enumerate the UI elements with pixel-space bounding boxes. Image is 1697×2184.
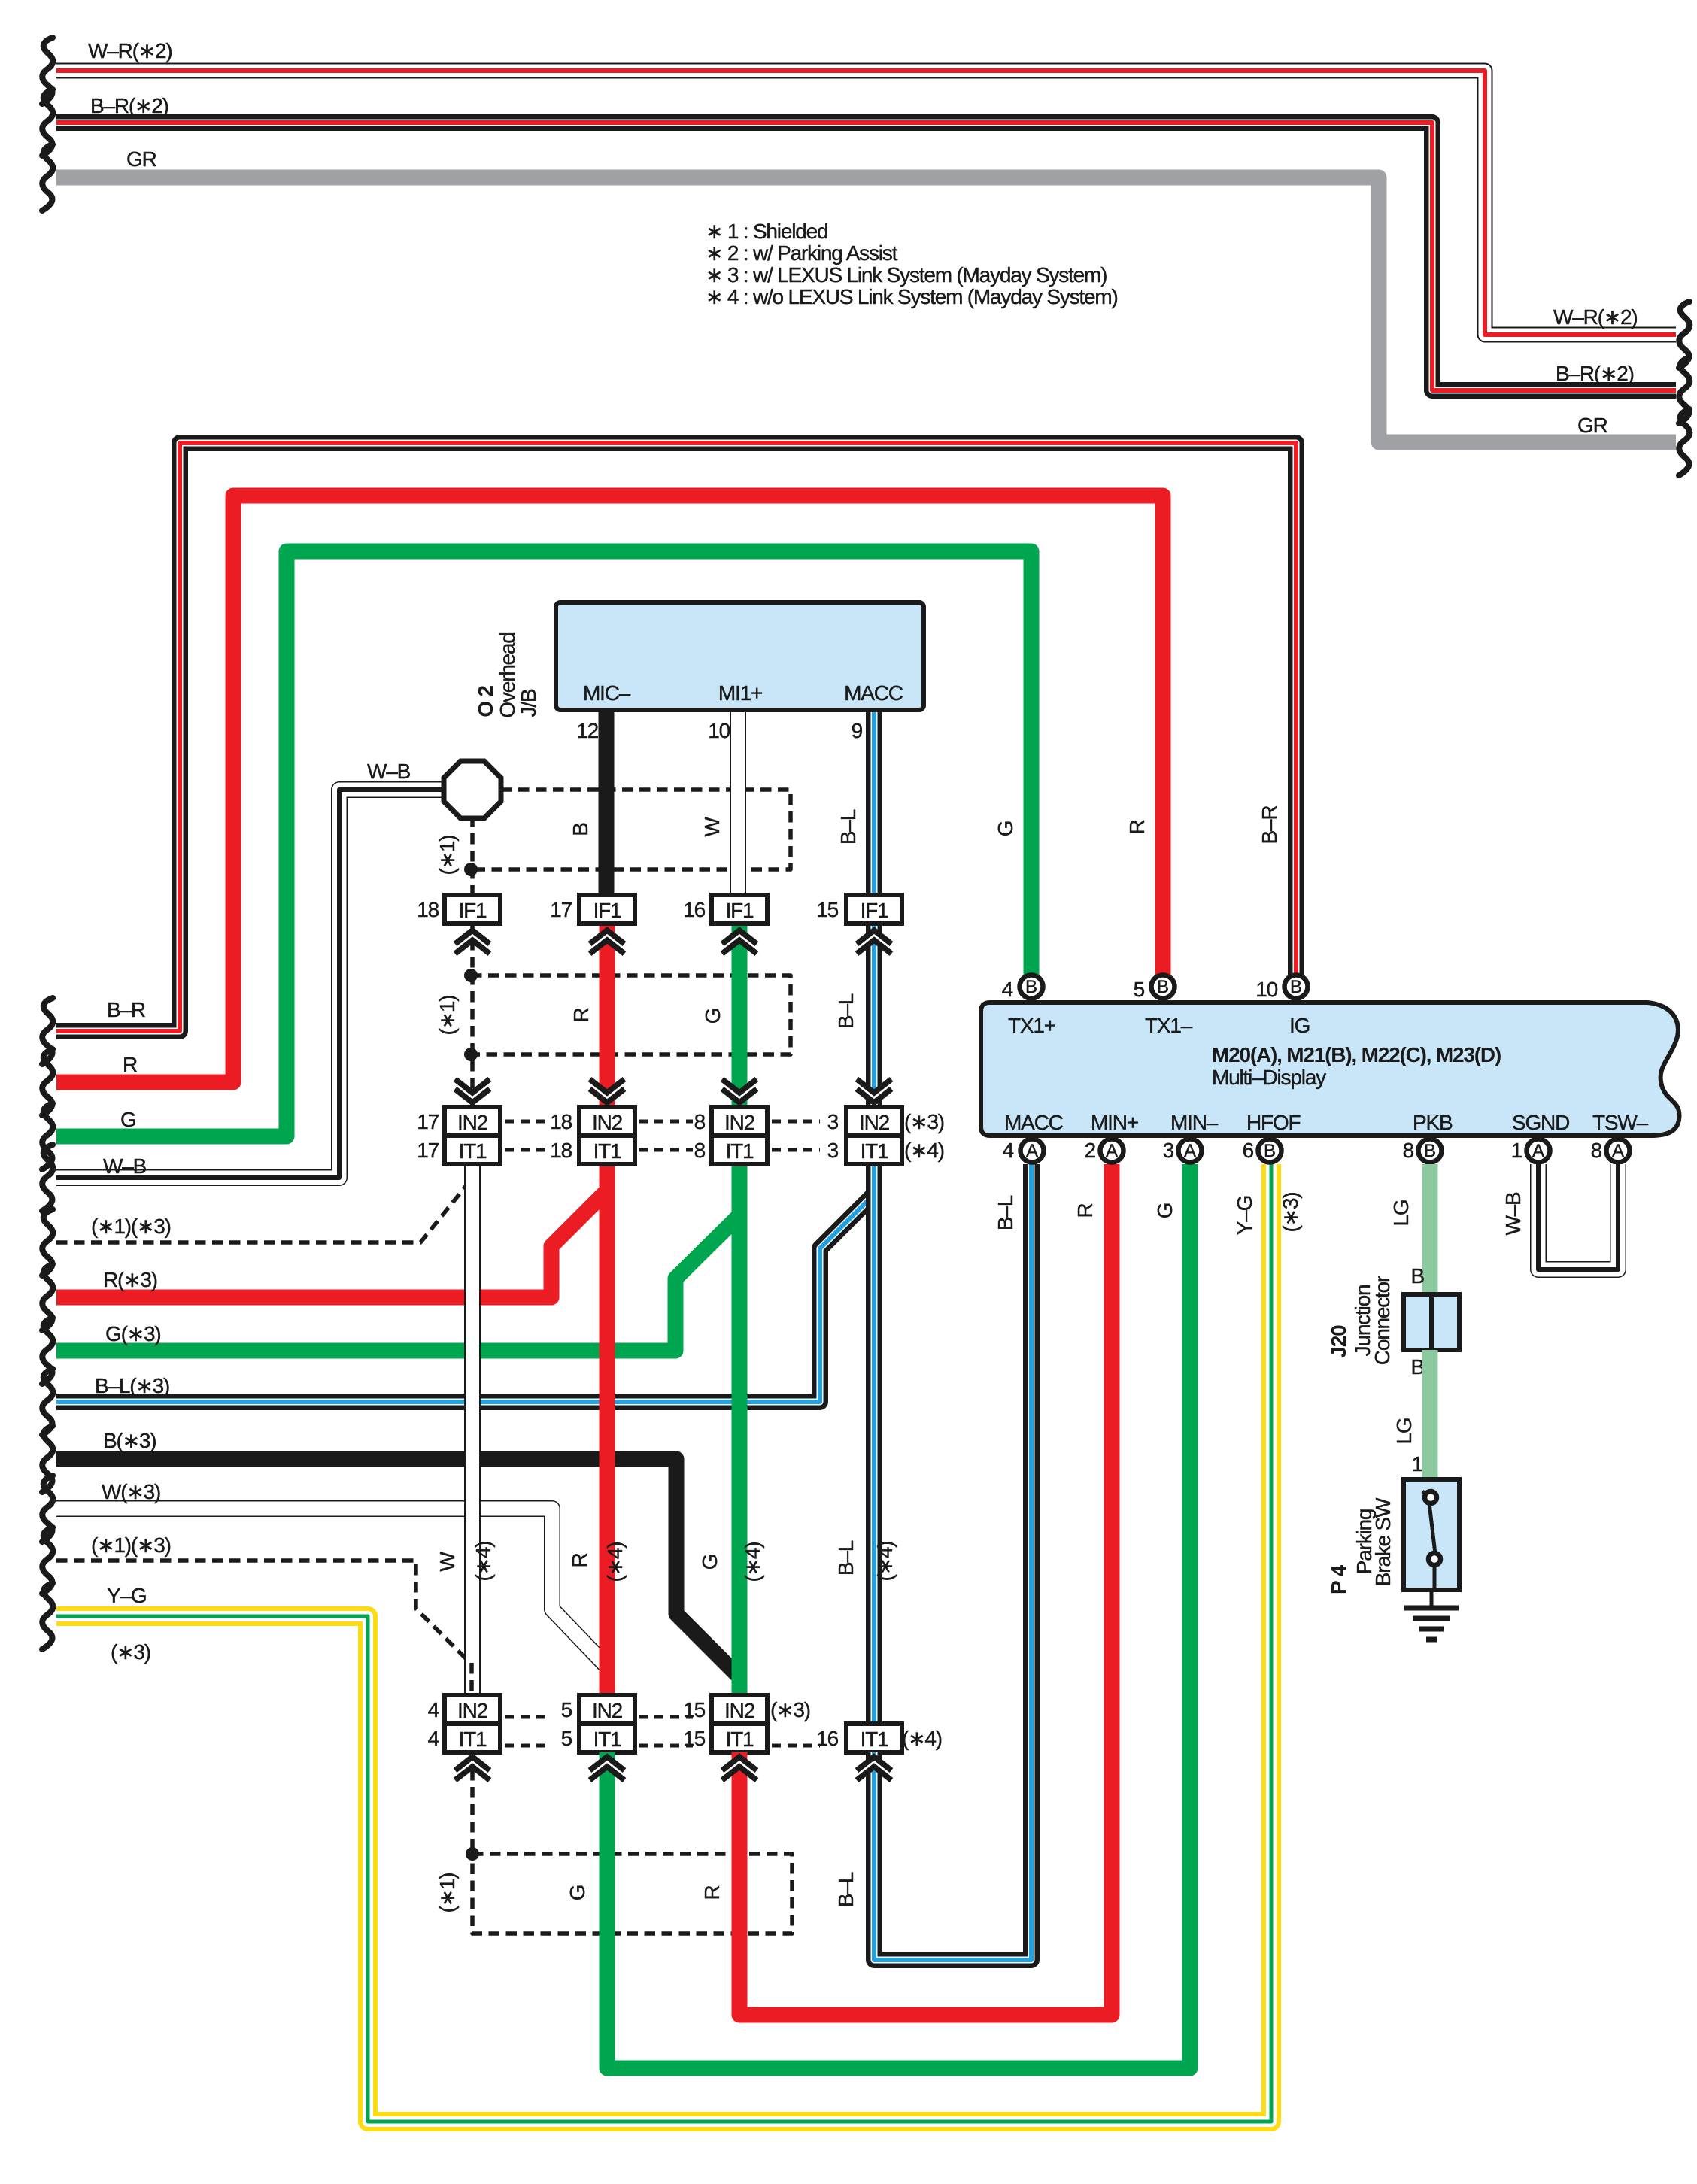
wire G(*3) from harness bbox=[56, 1215, 739, 1351]
wire G IF1-16 to IN2-8 bbox=[732, 924, 748, 1109]
svg-text:B–L: B–L bbox=[834, 1540, 858, 1576]
svg-text:B–R(∗2): B–R(∗2) bbox=[90, 94, 168, 117]
svg-text:17: 17 bbox=[550, 898, 572, 921]
svg-text:5: 5 bbox=[1134, 978, 1145, 1001]
shield junction dot (box1) bbox=[464, 863, 478, 876]
svg-text:O 2: O 2 bbox=[474, 686, 497, 717]
svg-text:W–B: W–B bbox=[367, 760, 411, 783]
junction block O2 Overhead J/B bbox=[556, 602, 924, 710]
wire B-R(*2) top harness bbox=[56, 123, 1676, 390]
wire LG J20 to Parking Brake SW bbox=[1422, 1350, 1438, 1481]
shield ground octagon bbox=[444, 761, 501, 818]
brace G(*3) bbox=[42, 1318, 53, 1384]
svg-text:B–R: B–R bbox=[1258, 806, 1281, 845]
wire G bus to TX1+ pin 4(B) bbox=[56, 551, 1031, 1136]
svg-text:5: 5 bbox=[561, 1698, 572, 1721]
wire G IT1-5 to MIN- pin 3(A) bbox=[607, 1164, 1190, 2068]
svg-text:Multi–Display: Multi–Display bbox=[1212, 1066, 1326, 1089]
connector IT1 pin 8 bbox=[712, 1136, 767, 1164]
switch P4 Parking Brake SW bbox=[1404, 1479, 1459, 1590]
svg-text:W(∗3): W(∗3) bbox=[102, 1480, 160, 1503]
svg-text:IN2: IN2 bbox=[859, 1111, 890, 1134]
svg-text:IF1: IF1 bbox=[861, 899, 888, 922]
shield dashed below IT1-4 bbox=[470, 1752, 475, 1854]
svg-text:IT1: IT1 bbox=[726, 1727, 754, 1751]
svg-text:R: R bbox=[123, 1053, 137, 1076]
connector IN2 pin 15 bbox=[712, 1695, 767, 1724]
svg-text:R: R bbox=[1073, 1203, 1097, 1218]
svg-text:3: 3 bbox=[1163, 1139, 1174, 1162]
brace B-R right bbox=[1679, 357, 1689, 423]
svg-text:A: A bbox=[1026, 1141, 1038, 1161]
svg-text:16: 16 bbox=[683, 898, 705, 921]
svg-text:IN2: IN2 bbox=[457, 1699, 488, 1722]
svg-text:B: B bbox=[569, 823, 592, 836]
svg-text:IF1: IF1 bbox=[459, 899, 487, 922]
connector IN2 pin 4 bbox=[445, 1695, 500, 1724]
brace B-L(*3) bbox=[42, 1369, 53, 1435]
chevron below IF1 15 bbox=[855, 930, 894, 954]
svg-text:IT1: IT1 bbox=[726, 1139, 754, 1163]
chevron below IT1 15 bbox=[720, 1757, 759, 1780]
svg-text:IN2: IN2 bbox=[457, 1111, 488, 1134]
svg-text:HFOF: HFOF bbox=[1246, 1111, 1301, 1134]
wire W(*3) from harness bbox=[56, 1509, 606, 1665]
svg-text:4: 4 bbox=[428, 1698, 439, 1721]
svg-text:∗ 2 : w/ Parking Assist: ∗ 2 : w/ Parking Assist bbox=[706, 241, 898, 265]
svg-text:G: G bbox=[701, 1009, 724, 1024]
svg-text:4: 4 bbox=[428, 1727, 439, 1750]
svg-text:∗ 3 : w/ LEXUS Link System (Ma: ∗ 3 : w/ LEXUS Link System (Mayday Syste… bbox=[706, 263, 1107, 287]
svg-text:18: 18 bbox=[550, 1110, 572, 1133]
svg-text:Brake SW: Brake SW bbox=[1371, 1497, 1395, 1586]
svg-text:R: R bbox=[569, 1008, 593, 1022]
svg-text:LG: LG bbox=[1389, 1200, 1413, 1227]
connector IN2 pin 5 bbox=[579, 1695, 635, 1724]
svg-text:B–L: B–L bbox=[834, 1872, 858, 1907]
svg-text:B: B bbox=[1264, 1141, 1276, 1161]
connector IT1 pin 4 bbox=[445, 1724, 500, 1752]
svg-text:IG: IG bbox=[1289, 1014, 1310, 1037]
wire R(*3) from harness bbox=[56, 1191, 607, 1297]
svg-text:B: B bbox=[1424, 1141, 1436, 1161]
svg-text:9: 9 bbox=[852, 719, 863, 742]
svg-text:Connector: Connector bbox=[1371, 1276, 1394, 1365]
wire GR top harness bbox=[56, 177, 1676, 442]
connector IT1 pin 5 bbox=[579, 1724, 635, 1752]
svg-text:(∗1)(∗3): (∗1)(∗3) bbox=[91, 1533, 171, 1557]
brace (*1)(*3) lower bbox=[42, 1527, 53, 1594]
svg-text:J/B: J/B bbox=[517, 689, 540, 717]
connector IT1 pin 15 bbox=[712, 1724, 767, 1752]
svg-text:Overhead: Overhead bbox=[496, 632, 519, 717]
ground symbol below Parking Brake SW bbox=[1404, 1590, 1459, 1640]
wire B(*3) from harness bbox=[56, 1459, 739, 1677]
svg-text:IF1: IF1 bbox=[593, 899, 621, 922]
brace Y-G left bbox=[42, 1583, 53, 1649]
pin 10(B) IG bbox=[1285, 975, 1308, 999]
chevron below IT1 5 bbox=[587, 1757, 627, 1780]
svg-text:12: 12 bbox=[576, 719, 598, 742]
svg-text:TX1–: TX1– bbox=[1145, 1014, 1193, 1037]
svg-text:A: A bbox=[1532, 1141, 1544, 1161]
svg-text:5: 5 bbox=[561, 1727, 572, 1750]
svg-text:R: R bbox=[568, 1553, 591, 1567]
shield junction dot (box2 top) bbox=[464, 969, 478, 982]
pin 4(B) TX1+ bbox=[1020, 975, 1043, 999]
svg-text:(∗3): (∗3) bbox=[1279, 1193, 1302, 1233]
svg-text:B–L(∗3): B–L(∗3) bbox=[95, 1374, 169, 1397]
brace G bus bbox=[42, 1103, 53, 1169]
chevron above IN2 8 bbox=[720, 1079, 759, 1103]
shield dashed box 3 bbox=[472, 1854, 792, 1934]
svg-text:R: R bbox=[1125, 820, 1149, 834]
wire W from O2 J/B pin 10 to IF1 16 bbox=[730, 710, 746, 896]
svg-text:∗ 1 : Shielded: ∗ 1 : Shielded bbox=[706, 220, 827, 243]
svg-text:IN2: IN2 bbox=[592, 1699, 623, 1722]
svg-text:B(∗3): B(∗3) bbox=[103, 1429, 156, 1452]
wire R column IT1-18 to IN2-5 bbox=[600, 1164, 615, 1697]
svg-text:B–R(∗2): B–R(∗2) bbox=[1556, 362, 1634, 385]
svg-text:P 4: P 4 bbox=[1327, 1564, 1350, 1594]
shield dashed over W column into IN2-4 bbox=[469, 1663, 474, 1697]
wire LG PKB to junction connector J20 bbox=[1422, 1164, 1438, 1296]
wire W column IT1-17 to IN2-4 bbox=[464, 1164, 481, 1697]
shield dashed vertical below octagon bbox=[470, 816, 475, 896]
svg-text:(∗4): (∗4) bbox=[873, 1542, 897, 1582]
svg-text:A: A bbox=[1106, 1141, 1118, 1161]
chevron above IN2 3 bbox=[855, 1079, 894, 1103]
pin 8(B) PKB bbox=[1419, 1139, 1442, 1163]
connector IF1 pin 16 bbox=[712, 895, 767, 924]
wire shield (*1)(*3) dashed upper bbox=[56, 1177, 473, 1242]
svg-text:MIN+: MIN+ bbox=[1091, 1111, 1138, 1134]
brace R(*3) bbox=[42, 1264, 53, 1330]
svg-text:MI1+: MI1+ bbox=[718, 681, 762, 705]
svg-text:MIC–: MIC– bbox=[583, 681, 631, 705]
svg-text:17: 17 bbox=[417, 1110, 439, 1133]
wire W-B loop SGND to TSW- bbox=[1538, 1164, 1618, 1269]
svg-text:(∗1)(∗3): (∗1)(∗3) bbox=[91, 1215, 171, 1238]
pin 6(B) HFOF bbox=[1258, 1139, 1282, 1163]
inter-connector dashes bottom row bbox=[505, 1715, 550, 1719]
svg-text:1: 1 bbox=[1511, 1139, 1522, 1162]
wire B-L(*3) from harness bbox=[56, 1194, 874, 1402]
shield dashed box 2 bbox=[471, 975, 791, 1054]
svg-text:(∗4): (∗4) bbox=[741, 1542, 764, 1582]
brace GR left bbox=[42, 144, 53, 211]
wire R IF1-17 to IN2-18 bbox=[600, 924, 615, 1109]
svg-text:IN2: IN2 bbox=[592, 1111, 623, 1134]
svg-text:B–L: B–L bbox=[994, 1195, 1017, 1230]
connector IF1 pin 15 bbox=[846, 895, 902, 924]
brace GR right bbox=[1679, 409, 1689, 475]
svg-text:W–B: W–B bbox=[103, 1154, 147, 1178]
brace W(*3) bbox=[42, 1476, 53, 1542]
svg-text:M20(A), M21(B), M22(C), M23(D): M20(A), M21(B), M22(C), M23(D) bbox=[1212, 1043, 1501, 1066]
wire R IT1-15 to MIN+ pin 2(A) bbox=[739, 1164, 1112, 2015]
svg-text:4: 4 bbox=[1003, 1139, 1014, 1162]
brace (*1)(*3) upper bbox=[42, 1209, 53, 1276]
brace W-R left bbox=[42, 38, 53, 104]
wire B from O2 J/B pin 12 to IF1 17 bbox=[599, 710, 615, 896]
connector IF1 pin 18 bbox=[445, 895, 500, 924]
svg-text:IF1: IF1 bbox=[726, 899, 754, 922]
brace B-R left bbox=[42, 89, 53, 156]
svg-text:SGND: SGND bbox=[1512, 1111, 1569, 1134]
svg-text:IN2: IN2 bbox=[724, 1111, 755, 1134]
svg-text:G: G bbox=[698, 1555, 721, 1570]
shield dashed vertical IF1-18 to IN2-17 bbox=[470, 922, 475, 1109]
wire Y-G harness to HFOF pin 6(B) bbox=[56, 1164, 1271, 2122]
brace R bus bbox=[42, 1049, 53, 1115]
svg-text:18: 18 bbox=[550, 1139, 572, 1162]
svg-text:MIN–: MIN– bbox=[1170, 1111, 1219, 1134]
svg-text:W–R(∗2): W–R(∗2) bbox=[1553, 305, 1638, 329]
connector IN2 pin 17 bbox=[445, 1107, 500, 1136]
svg-text:W–R(∗2): W–R(∗2) bbox=[88, 39, 172, 62]
svg-text:J20: J20 bbox=[1327, 1325, 1350, 1358]
svg-text:A: A bbox=[1612, 1141, 1624, 1161]
wire B-R bus to IG pin 10(B) bbox=[56, 443, 1296, 1031]
svg-text:G: G bbox=[1153, 1203, 1176, 1219]
svg-text:G(∗3): G(∗3) bbox=[105, 1322, 160, 1345]
wire W-B to shield octagon bbox=[56, 790, 445, 1178]
connector IT1 pin 3 bbox=[846, 1136, 902, 1164]
connector IT1 pin 16 bbox=[846, 1724, 902, 1752]
svg-text:IT1: IT1 bbox=[459, 1727, 487, 1751]
connector IT1 pin 18 bbox=[579, 1136, 635, 1164]
pin 8(A) TSW- bbox=[1607, 1139, 1630, 1163]
pin 3(A) MIN- bbox=[1179, 1139, 1202, 1163]
svg-text:(∗3): (∗3) bbox=[770, 1698, 810, 1721]
shield junction dot (box3) bbox=[466, 1847, 479, 1861]
svg-text:IN2: IN2 bbox=[724, 1699, 755, 1722]
svg-text:MACC: MACC bbox=[844, 681, 903, 705]
svg-text:15: 15 bbox=[816, 898, 838, 921]
brace B-R bus bbox=[42, 998, 53, 1064]
svg-text:(∗1): (∗1) bbox=[436, 836, 459, 875]
wire B-L IF1-15 to IN2-3 bbox=[866, 924, 882, 1109]
inter-connector dashes middle row bbox=[505, 1120, 550, 1124]
svg-text:B: B bbox=[1290, 977, 1302, 997]
brace W-B left bbox=[42, 1145, 53, 1211]
svg-text:∗ 4 : w/o LEXUS Link System (M: ∗ 4 : w/o LEXUS Link System (Mayday Syst… bbox=[706, 285, 1118, 308]
pin 2(A) MIN+ bbox=[1100, 1139, 1124, 1163]
svg-text:R(∗3): R(∗3) bbox=[103, 1268, 157, 1291]
svg-text:G: G bbox=[566, 1885, 589, 1901]
svg-text:W: W bbox=[700, 817, 724, 837]
wire G column IT1-8 to IN2-15 bbox=[732, 1164, 748, 1697]
svg-text:4: 4 bbox=[1002, 978, 1013, 1001]
svg-text:B–R: B–R bbox=[107, 998, 145, 1021]
svg-text:W: W bbox=[436, 1552, 459, 1572]
chevron above IN2 18 bbox=[587, 1079, 627, 1103]
connector IF1 pin 17 bbox=[579, 895, 635, 924]
svg-text:10: 10 bbox=[708, 719, 730, 742]
svg-text:IT1: IT1 bbox=[459, 1139, 487, 1163]
svg-text:(∗4): (∗4) bbox=[904, 1139, 944, 1162]
wire B-L from O2 J/B pin 9 to IF1 15 bbox=[866, 710, 882, 896]
pin 5(B) TX1- bbox=[1152, 975, 1175, 999]
svg-text:18: 18 bbox=[417, 898, 439, 921]
svg-text:IT1: IT1 bbox=[593, 1727, 621, 1751]
svg-text:17: 17 bbox=[417, 1139, 439, 1162]
svg-text:2: 2 bbox=[1085, 1139, 1096, 1162]
connector IN2 pin 18 bbox=[579, 1107, 635, 1136]
svg-text:PKB: PKB bbox=[1413, 1111, 1453, 1134]
ECU block Multi-Display M20(A) M21(B) M22(C) M23(D) bbox=[981, 1003, 1680, 1136]
svg-text:IT1: IT1 bbox=[861, 1727, 888, 1751]
junction connector J20 bbox=[1404, 1294, 1459, 1350]
svg-text:6: 6 bbox=[1243, 1139, 1254, 1162]
svg-text:10: 10 bbox=[1255, 978, 1277, 1001]
svg-text:B: B bbox=[1025, 977, 1037, 997]
chevron below IT1 16 bbox=[855, 1757, 894, 1780]
svg-text:8: 8 bbox=[1403, 1139, 1414, 1162]
wire shield (*1)(*3) dashed lower bbox=[56, 1561, 472, 1664]
svg-text:(∗1): (∗1) bbox=[436, 1873, 459, 1913]
svg-text:8: 8 bbox=[694, 1110, 706, 1133]
wire W-R(*2) top harness bbox=[56, 71, 1676, 335]
pin 4(A) MACC bbox=[1021, 1139, 1044, 1163]
svg-text:(∗4): (∗4) bbox=[472, 1542, 495, 1582]
svg-text:B: B bbox=[1157, 977, 1169, 997]
svg-text:W–B: W–B bbox=[1501, 1192, 1525, 1236]
svg-text:(∗4): (∗4) bbox=[603, 1542, 627, 1582]
wire B-L IT1-16 to MACC pin 4(A) bbox=[874, 1164, 1031, 1960]
svg-text:8: 8 bbox=[694, 1139, 706, 1162]
chevron below IF1 17 bbox=[587, 930, 627, 954]
svg-text:3: 3 bbox=[827, 1110, 839, 1133]
chevron below IT1 4 bbox=[453, 1757, 492, 1780]
svg-text:G: G bbox=[994, 821, 1017, 837]
brace W-R right bbox=[1679, 302, 1689, 368]
svg-text:G: G bbox=[120, 1108, 136, 1131]
svg-text:GR: GR bbox=[1577, 414, 1607, 437]
svg-text:Y–G: Y–G bbox=[107, 1584, 146, 1607]
svg-text:IT1: IT1 bbox=[861, 1139, 888, 1163]
svg-text:A: A bbox=[1184, 1141, 1196, 1161]
svg-text:3: 3 bbox=[827, 1139, 839, 1162]
svg-text:IT1: IT1 bbox=[593, 1139, 621, 1163]
svg-text:1: 1 bbox=[1412, 1452, 1423, 1476]
svg-text:R: R bbox=[700, 1885, 724, 1900]
shield dashed box 1 (octagon to IF1 row) bbox=[471, 790, 791, 869]
wire R bus to TX1- pin 5(B) bbox=[56, 496, 1163, 1082]
brace B(*3) bbox=[42, 1426, 53, 1492]
svg-text:Y–G: Y–G bbox=[1233, 1196, 1256, 1235]
svg-text:GR: GR bbox=[126, 147, 156, 171]
svg-text:LG: LG bbox=[1392, 1418, 1416, 1445]
chevron above IN2 17 bbox=[453, 1079, 492, 1103]
shield junction dot (box2 bottom) bbox=[464, 1048, 478, 1061]
svg-text:8: 8 bbox=[1591, 1139, 1602, 1162]
pin 1(A) SGND bbox=[1527, 1139, 1550, 1163]
connector IN2 pin 3 bbox=[846, 1107, 902, 1136]
svg-text:MACC: MACC bbox=[1004, 1111, 1064, 1134]
svg-text:(∗1): (∗1) bbox=[436, 996, 459, 1036]
svg-text:TSW–: TSW– bbox=[1592, 1111, 1649, 1134]
svg-text:TX1+: TX1+ bbox=[1008, 1014, 1055, 1037]
svg-text:(∗3): (∗3) bbox=[111, 1640, 150, 1664]
chevron below IF1 16 bbox=[720, 930, 759, 954]
svg-text:B–L: B–L bbox=[836, 809, 860, 845]
svg-text:B–L: B–L bbox=[834, 993, 858, 1029]
chevron below IF1 18 bbox=[453, 930, 492, 954]
svg-text:(∗3): (∗3) bbox=[904, 1110, 944, 1133]
connector IT1 pin 17 bbox=[445, 1136, 500, 1164]
svg-text:(∗4): (∗4) bbox=[902, 1727, 942, 1750]
wire B-L column IT1-3 to IT1-16 bbox=[866, 1164, 882, 1725]
connector IN2 pin 8 bbox=[712, 1107, 767, 1136]
svg-text:B: B bbox=[1411, 1264, 1425, 1288]
